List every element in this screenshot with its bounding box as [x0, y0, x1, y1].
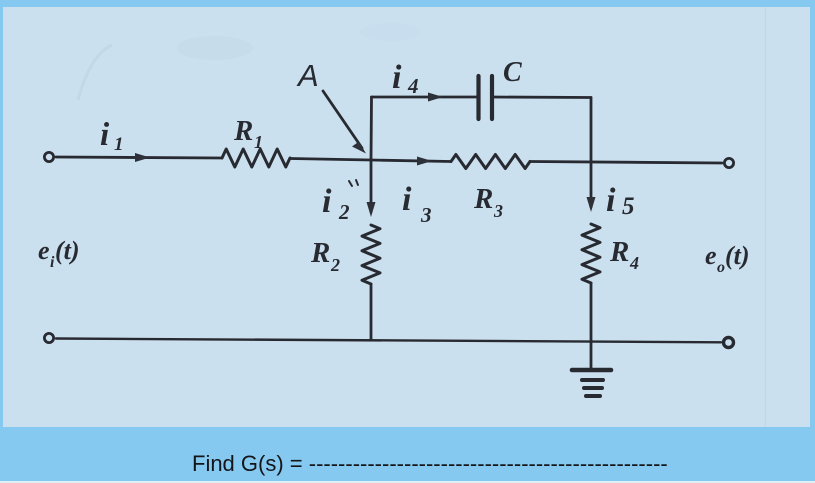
svg-text:i: i	[100, 117, 110, 153]
svg-text:C: C	[503, 57, 522, 88]
svg-text:i: i	[402, 181, 412, 218]
svg-text:(t): (t)	[55, 236, 80, 265]
svg-text:2: 2	[330, 255, 340, 275]
svg-text:1: 1	[254, 132, 263, 152]
svg-text:3: 3	[493, 201, 503, 221]
svg-text:2: 2	[338, 200, 350, 224]
svg-text:R: R	[233, 115, 253, 147]
svg-text:5: 5	[622, 193, 635, 220]
svg-text:i: i	[322, 183, 332, 220]
svg-text:4: 4	[629, 253, 639, 273]
svg-text:R: R	[310, 237, 330, 269]
svg-text:e: e	[705, 241, 717, 270]
svg-text:e: e	[38, 236, 50, 265]
svg-text:i: i	[392, 59, 402, 96]
svg-text:o: o	[717, 259, 725, 276]
svg-text:R: R	[609, 236, 629, 268]
svg-text:4: 4	[407, 74, 419, 98]
svg-text:(t): (t)	[725, 241, 750, 270]
svg-text:3: 3	[420, 203, 432, 227]
svg-text:i: i	[606, 182, 616, 219]
svg-text:R: R	[473, 183, 493, 215]
svg-text:A: A	[296, 58, 319, 93]
svg-text:1: 1	[114, 134, 124, 155]
